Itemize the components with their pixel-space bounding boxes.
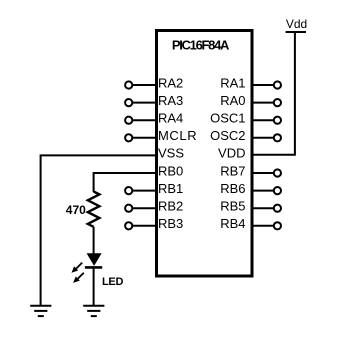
wire RB0 pin to resistor bbox=[94, 173, 155, 192]
pin RB4 terminal and wire bbox=[254, 222, 282, 229]
svg-text:RA1: RA1 bbox=[220, 75, 245, 90]
pin RA0 terminal and wire bbox=[254, 99, 282, 106]
LED D1 (diode triangle and cathode bar) bbox=[85, 253, 102, 267]
svg-text:MCLR: MCLR bbox=[158, 128, 197, 143]
LED emission arrow 1 bbox=[72, 263, 83, 273]
svg-text:RA2: RA2 bbox=[158, 75, 183, 90]
svg-text:Vdd: Vdd bbox=[286, 17, 307, 31]
svg-text:LED: LED bbox=[102, 276, 123, 288]
svg-text:RA3: RA3 bbox=[158, 93, 183, 108]
wire resistor to LED anode bbox=[93, 227, 95, 254]
svg-text:RB1: RB1 bbox=[158, 181, 183, 196]
svg-text:RB6: RB6 bbox=[220, 181, 245, 196]
svg-text:RB5: RB5 bbox=[220, 199, 245, 214]
ground (VSS net) bbox=[30, 306, 51, 316]
svg-text:RB0: RB0 bbox=[158, 163, 183, 178]
pin MCLR terminal and wire bbox=[125, 134, 155, 141]
svg-text:PIC16F84A: PIC16F84A bbox=[172, 38, 230, 53]
pin OSC1 terminal and wire bbox=[254, 117, 282, 124]
power rail Vdd bar bbox=[286, 31, 306, 33]
svg-text:VSS: VSS bbox=[158, 146, 184, 161]
svg-text:RA0: RA0 bbox=[220, 93, 245, 108]
pin RA2 terminal and wire bbox=[125, 81, 155, 88]
IC U1 body (PIC16F84A) bbox=[157, 31, 253, 277]
svg-text:RB4: RB4 bbox=[220, 216, 245, 231]
pin RB1 terminal and wire bbox=[125, 187, 155, 194]
svg-text:OSC1: OSC1 bbox=[210, 111, 245, 126]
svg-text:RB2: RB2 bbox=[158, 199, 183, 214]
pin RA1 terminal and wire bbox=[254, 81, 282, 88]
svg-text:470: 470 bbox=[66, 203, 86, 217]
wire VSS pin to ground bbox=[41, 155, 155, 306]
ground (LED net) bbox=[83, 306, 104, 316]
pin RA3 terminal and wire bbox=[125, 99, 155, 106]
wire LED cathode to ground bbox=[93, 267, 95, 306]
svg-text:RA4: RA4 bbox=[158, 111, 183, 126]
pin RB6 terminal and wire bbox=[254, 187, 282, 194]
pin RB7 terminal and wire bbox=[254, 169, 282, 176]
pin OSC2 terminal and wire bbox=[254, 134, 282, 141]
wire VDD pin to Vdd rail bbox=[254, 32, 295, 155]
svg-text:VDD: VDD bbox=[218, 146, 245, 161]
LED emission arrow 2 bbox=[73, 273, 84, 283]
svg-text:RB7: RB7 bbox=[220, 163, 245, 178]
pin RB2 terminal and wire bbox=[125, 205, 155, 212]
svg-text:OSC2: OSC2 bbox=[210, 128, 245, 143]
svg-text:RB3: RB3 bbox=[158, 216, 183, 231]
pin RA4 terminal and wire bbox=[125, 117, 155, 124]
pin RB5 terminal and wire bbox=[254, 205, 282, 212]
resistor R1 zigzag bbox=[88, 192, 100, 227]
pin RB3 terminal and wire bbox=[125, 222, 155, 229]
